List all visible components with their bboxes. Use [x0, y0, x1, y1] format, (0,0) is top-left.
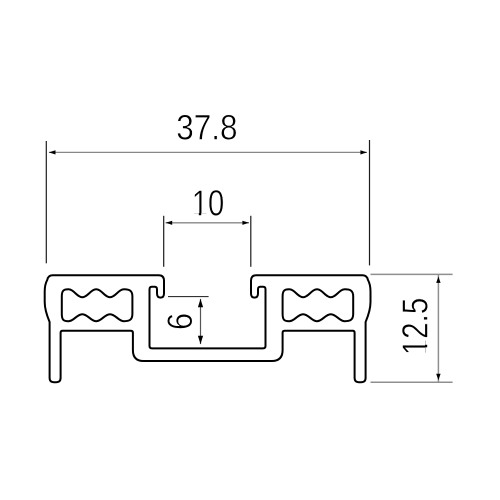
profile cross-section outline: [45, 275, 371, 382]
dim 6 dimension line: [200, 299, 202, 344]
dim 37.8 arrowhead left: [49, 150, 56, 154]
dim 10 arrowhead right: [242, 221, 249, 225]
dim 12.5 extension line bottom: [371, 381, 453, 383]
dim 10 dimension line: [166, 222, 249, 224]
dim 37.8 arrowhead right: [360, 150, 367, 154]
dim 37.8 extension line left: [45, 141, 47, 263]
dim 6 extension line top: [168, 296, 209, 298]
serif masks on digit 1 glyphs: [194, 213, 199, 216]
dim 37.8 dimension line: [49, 151, 367, 153]
svg-text:6: 6: [160, 313, 199, 330]
dim 37.8 extension line right: [369, 140, 371, 265]
left hollow chamber (wavy): [62, 289, 133, 321]
svg-text:10: 10: [192, 183, 224, 224]
svg-text:12.5: 12.5: [396, 298, 437, 356]
dim 10 extension line left: [163, 216, 165, 267]
dim 12.5 extension line top: [371, 273, 453, 275]
dim 6 arrowhead bottom: [198, 336, 203, 344]
dim 12.5 dimension line: [437, 274, 439, 382]
svg-text:37.8: 37.8: [176, 109, 237, 148]
dim 12.5 arrowhead top: [436, 277, 440, 283]
dim 10 arrowhead left: [166, 221, 173, 225]
dim 12.5 arrowhead bottom: [436, 374, 440, 380]
dim 10 extension line right: [250, 216, 252, 267]
dim 6 arrowhead top: [198, 299, 203, 307]
right hollow chamber (wavy): [283, 289, 354, 321]
